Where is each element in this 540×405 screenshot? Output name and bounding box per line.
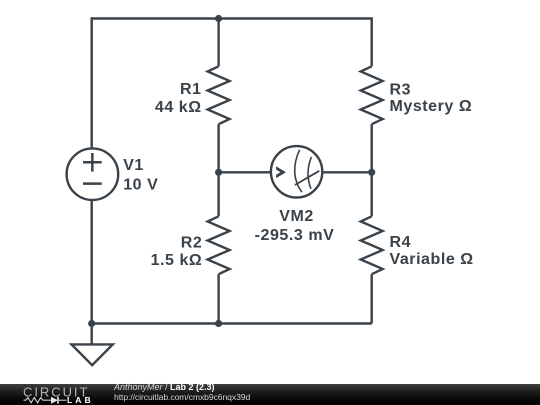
credit text	[114, 383, 250, 402]
R3 label	[390, 81, 473, 115]
wire R3-R4 middle stub	[371, 124, 373, 216]
svg-text:Variable Ω: Variable Ω	[390, 251, 474, 268]
node bottom left	[88, 320, 95, 327]
voltage source V1	[67, 148, 119, 200]
ground	[72, 324, 113, 366]
svg-text:R2: R2	[181, 235, 203, 252]
node bottom middle	[215, 320, 222, 327]
svg-text:R4: R4	[390, 234, 412, 251]
svg-text:-295.3 mV: -295.3 mV	[255, 227, 335, 244]
svg-text:V1: V1	[123, 157, 144, 174]
svg-text:44 kΩ: 44 kΩ	[155, 99, 202, 116]
resistor R3	[361, 66, 383, 124]
V1 label	[123, 157, 158, 194]
svg-text:LAB: LAB	[67, 395, 94, 405]
R1 label	[155, 81, 202, 116]
wire top rail	[92, 17, 372, 19]
svg-text:R3: R3	[390, 81, 412, 98]
wire left column upper	[90, 17, 92, 148]
wire left column lower	[90, 200, 92, 324]
CircuitLab logo	[0, 384, 110, 405]
footer bar	[0, 384, 540, 405]
wire bottom rail	[92, 322, 372, 324]
svg-text:VM2: VM2	[279, 208, 314, 225]
node top middle	[215, 15, 222, 22]
svg-text:10 V: 10 V	[123, 176, 158, 193]
wire R1-R2 middle stub	[217, 124, 219, 216]
wire mid rail right	[322, 171, 372, 173]
resistor R2	[208, 216, 230, 274]
node mid right	[368, 169, 375, 176]
VM2 label	[255, 208, 335, 244]
svg-text:Mystery Ω: Mystery Ω	[390, 98, 473, 115]
wire R1 top stub	[217, 17, 219, 66]
resistor R4	[361, 216, 383, 274]
voltmeter VM2	[271, 146, 322, 197]
wire mid rail left	[219, 171, 272, 173]
svg-text:1.5 kΩ: 1.5 kΩ	[151, 252, 203, 269]
node mid middle	[215, 169, 222, 176]
R4 label	[390, 234, 474, 268]
wire R2 bottom stub	[217, 274, 219, 323]
wire R4 bottom stub	[371, 274, 373, 323]
R2 label	[151, 235, 203, 270]
wire R3 top stub	[371, 17, 373, 66]
resistor R1	[208, 66, 230, 124]
svg-text:R1: R1	[180, 81, 202, 98]
